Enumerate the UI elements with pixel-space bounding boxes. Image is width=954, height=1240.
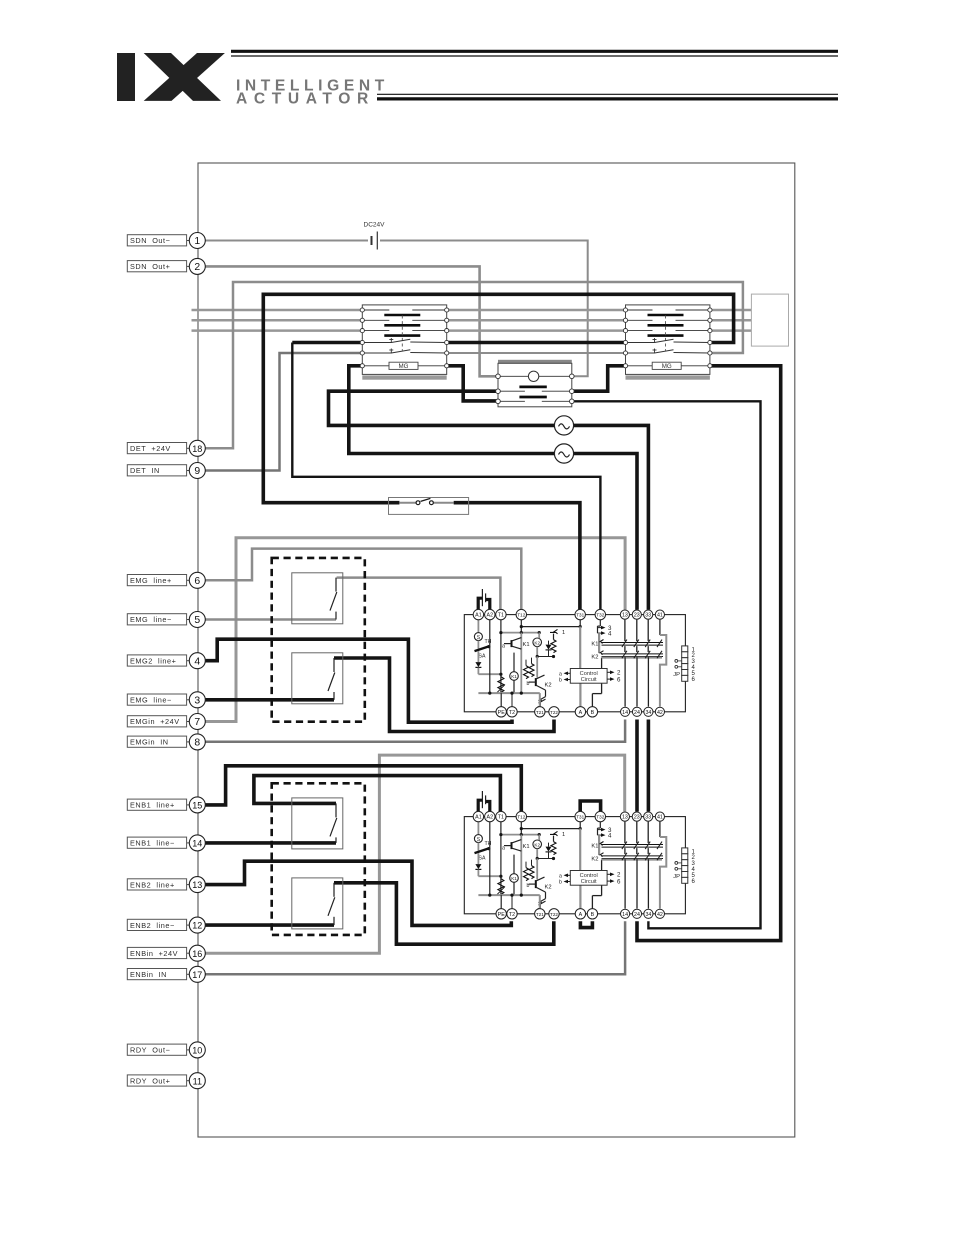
svg-text:K2: K2	[545, 885, 552, 891]
svg-text:T31: T31	[576, 613, 584, 618]
svg-text:14: 14	[192, 839, 202, 849]
svg-text:15: 15	[192, 801, 202, 811]
svg-text:13: 13	[192, 880, 202, 890]
svg-text:A2: A2	[487, 815, 494, 821]
svg-text:13: 13	[622, 613, 628, 619]
svg-text:6: 6	[617, 677, 621, 684]
svg-text:K1: K1	[511, 674, 517, 679]
svg-text:T32: T32	[596, 815, 604, 820]
svg-text:b: b	[559, 880, 562, 886]
svg-text:K1: K1	[511, 876, 517, 881]
svg-text:a: a	[502, 644, 505, 650]
svg-text:8: 8	[194, 738, 200, 749]
svg-text:RDY Out+: RDY Out+	[130, 1076, 170, 1085]
svg-text:12: 12	[192, 921, 202, 931]
svg-text:T2: T2	[509, 710, 515, 716]
svg-text:4: 4	[608, 631, 612, 638]
svg-text:EMG line−: EMG line−	[130, 615, 172, 624]
svg-text:6: 6	[194, 576, 200, 587]
svg-text:A: A	[579, 710, 583, 716]
svg-text:11: 11	[193, 1076, 202, 1086]
svg-text:41: 41	[657, 613, 663, 619]
svg-text:RDY Out−: RDY Out−	[130, 1046, 170, 1055]
svg-text:b: b	[527, 681, 530, 687]
svg-text:SDN Out+: SDN Out+	[130, 262, 170, 271]
svg-text:7: 7	[194, 717, 200, 728]
svg-text:K1: K1	[523, 642, 530, 648]
svg-text:Control: Control	[580, 873, 598, 879]
svg-text:4: 4	[194, 656, 200, 667]
svg-text:23: 23	[634, 613, 640, 619]
svg-text:18: 18	[192, 444, 202, 454]
svg-text:23: 23	[634, 815, 640, 821]
svg-text:T12: T12	[517, 815, 525, 820]
svg-text:24: 24	[634, 710, 640, 716]
svg-text:DET +24V: DET +24V	[130, 444, 171, 453]
svg-text:EMGin +24V: EMGin +24V	[130, 717, 180, 726]
svg-text:ENBin IN: ENBin IN	[130, 970, 167, 979]
svg-text:a: a	[502, 846, 505, 852]
svg-text:T32: T32	[596, 613, 604, 618]
svg-text:A: A	[579, 912, 583, 918]
svg-text:MG: MG	[662, 363, 672, 370]
svg-text:SA: SA	[479, 654, 486, 660]
svg-text:ENB1 line−: ENB1 line−	[130, 839, 175, 848]
svg-text:B: B	[591, 710, 595, 716]
svg-text:42: 42	[657, 710, 663, 716]
svg-text:K2: K2	[534, 842, 540, 847]
svg-text:T2: T2	[509, 912, 515, 918]
svg-text:2: 2	[194, 262, 200, 273]
svg-text:EMG line−: EMG line−	[130, 696, 172, 705]
svg-text:33: 33	[645, 613, 651, 619]
svg-text:a: a	[559, 671, 562, 677]
svg-text:41: 41	[657, 815, 663, 821]
svg-text:6: 6	[617, 879, 621, 886]
svg-text:K1: K1	[591, 844, 598, 850]
svg-text:T22: T22	[550, 710, 558, 715]
svg-text:b: b	[527, 883, 530, 889]
svg-text:DC24V: DC24V	[364, 222, 386, 229]
svg-text:EMG2 line+: EMG2 line+	[130, 656, 176, 665]
svg-text:ENB2 line−: ENB2 line−	[130, 921, 175, 930]
svg-text:14: 14	[622, 710, 628, 716]
svg-text:5: 5	[194, 615, 200, 626]
svg-text:SA: SA	[479, 856, 486, 862]
svg-text:17: 17	[192, 970, 202, 980]
svg-text:DET IN: DET IN	[130, 466, 160, 475]
svg-text:PE: PE	[498, 710, 506, 716]
svg-text:TH: TH	[485, 841, 492, 847]
svg-text:3: 3	[194, 695, 200, 706]
svg-text:A1: A1	[475, 815, 482, 821]
svg-text:T22: T22	[550, 912, 558, 917]
svg-text:T1: T1	[498, 613, 504, 619]
svg-text:16: 16	[192, 949, 202, 959]
svg-text:ENB2 line+: ENB2 line+	[130, 880, 175, 889]
svg-text:24: 24	[634, 912, 640, 918]
svg-text:1: 1	[194, 236, 200, 247]
svg-text:T31: T31	[576, 815, 584, 820]
svg-text:T1: T1	[498, 815, 504, 821]
svg-text:9: 9	[194, 466, 200, 477]
svg-text:14: 14	[622, 912, 628, 918]
svg-text:EMG line+: EMG line+	[130, 576, 172, 585]
svg-text:13: 13	[622, 815, 628, 821]
svg-text:K2: K2	[534, 640, 540, 645]
svg-text:EMGin IN: EMGin IN	[130, 738, 169, 747]
svg-text:K1: K1	[591, 642, 598, 648]
svg-text:ACTUATOR: ACTUATOR	[236, 90, 375, 107]
svg-text:4: 4	[608, 833, 612, 840]
svg-text:K2: K2	[545, 683, 552, 689]
svg-text:10: 10	[192, 1046, 202, 1056]
svg-text:T21: T21	[536, 912, 544, 917]
svg-text:A1: A1	[475, 613, 482, 619]
svg-text:T21: T21	[536, 710, 544, 715]
svg-text:K1: K1	[523, 844, 530, 850]
svg-text:JP: JP	[673, 672, 680, 678]
svg-text:TH: TH	[485, 639, 492, 645]
svg-text:33: 33	[645, 815, 651, 821]
svg-text:Control: Control	[580, 671, 598, 677]
svg-text:a: a	[559, 873, 562, 879]
svg-text:K2: K2	[591, 655, 598, 661]
svg-text:K2: K2	[591, 857, 598, 863]
svg-text:SDN Out−: SDN Out−	[130, 236, 170, 245]
svg-text:34: 34	[645, 710, 651, 716]
svg-text:B: B	[591, 912, 595, 918]
svg-text:Circuit: Circuit	[581, 879, 597, 885]
svg-text:1: 1	[562, 832, 565, 838]
svg-text:A2: A2	[487, 613, 494, 619]
svg-text:34: 34	[645, 912, 651, 918]
svg-text:1: 1	[562, 630, 565, 636]
svg-text:PE: PE	[498, 912, 506, 918]
svg-text:T12: T12	[517, 613, 525, 618]
svg-text:Circuit: Circuit	[581, 677, 597, 683]
svg-text:b: b	[559, 678, 562, 684]
svg-text:ENB1 line+: ENB1 line+	[130, 801, 175, 810]
svg-text:42: 42	[657, 912, 663, 918]
svg-text:ENBin +24V: ENBin +24V	[130, 949, 178, 958]
svg-text:MG: MG	[399, 363, 409, 370]
svg-text:JP: JP	[673, 874, 680, 880]
